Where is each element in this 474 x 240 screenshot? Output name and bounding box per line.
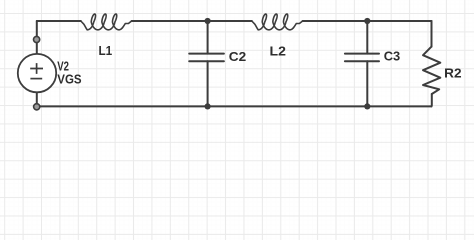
- voltage source plus sign: [30, 63, 43, 74]
- wire top-left vertical from source to top rail: [36, 21, 38, 54]
- wire top rail right segment (L2 to top-right corner): [303, 20, 432, 22]
- svg-text:VGS: VGS: [57, 71, 82, 86]
- voltage source V2 circle: [18, 54, 56, 92]
- voltage source minus sign: [30, 78, 42, 80]
- wire right rail lower (resistor to bottom-right corner): [431, 94, 433, 106]
- capacitor C3 plates: [345, 54, 379, 62]
- capacitor C3 bottom stub: [366, 61, 368, 106]
- node dot: V2 bottom terminal: [34, 104, 40, 110]
- junction node: C3 bottom: [364, 103, 370, 109]
- node dot: V2 top terminal: [34, 36, 40, 42]
- wire bottom-left vertical (source to bottom rail): [36, 92, 38, 106]
- wire top rail left segment: [37, 20, 81, 22]
- wire top rail middle segment (L1 to L2): [132, 20, 252, 22]
- junction node: C2 top: [205, 18, 211, 24]
- svg-text:C2: C2: [229, 49, 246, 64]
- capacitor C3 top stub: [366, 21, 368, 54]
- junction node: C2 bottom: [205, 103, 211, 109]
- svg-text:R2: R2: [444, 65, 461, 80]
- inductor L2: [252, 14, 303, 30]
- svg-text:L2: L2: [270, 43, 286, 58]
- resistor R2: [423, 47, 440, 94]
- junction node: C3 top: [364, 18, 370, 24]
- capacitor C2 plates: [189, 54, 224, 62]
- svg-text:L1: L1: [99, 43, 113, 58]
- wire right rail upper (corner to resistor): [431, 21, 433, 47]
- wire bottom rail: [37, 105, 432, 107]
- capacitor C2 bottom stub: [207, 61, 209, 106]
- inductor L1: [81, 14, 132, 30]
- svg-text:C3: C3: [384, 49, 401, 64]
- capacitor C2 top stub: [207, 21, 209, 54]
